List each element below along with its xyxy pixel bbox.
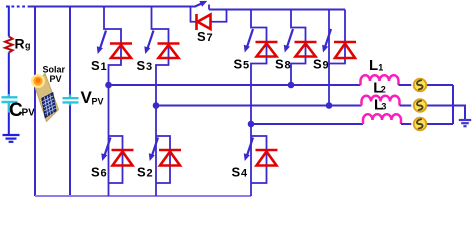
svg-text:PV: PV bbox=[92, 97, 104, 107]
switch S2 bbox=[149, 106, 170, 197]
svg-text:8: 8 bbox=[285, 60, 291, 72]
svg-text:1: 1 bbox=[378, 63, 383, 73]
svg-text:2: 2 bbox=[147, 168, 153, 180]
inductor L2 bbox=[362, 96, 400, 106]
AC source b bbox=[414, 99, 427, 112]
svg-text:S: S bbox=[232, 165, 241, 180]
AC source c bbox=[414, 118, 427, 131]
wire: left branch between Rg and C_PV bbox=[8, 53, 10, 95]
wire: left branch vertical top bbox=[8, 6, 10, 37]
AC source a bbox=[414, 79, 427, 92]
wire: dashed top-left segment bbox=[6, 6, 29, 8]
svg-text:S: S bbox=[91, 165, 100, 180]
svg-text:7: 7 bbox=[207, 32, 213, 44]
svg-text:S: S bbox=[91, 58, 100, 73]
switch S7 (series in top rail) bbox=[191, 1, 227, 22]
wire: L2 to source b bbox=[400, 105, 412, 107]
wire: phase rail B (to L2) bbox=[156, 105, 362, 107]
svg-text:S: S bbox=[137, 165, 146, 180]
wire: V_PV branch vertical bottom bbox=[69, 106, 71, 197]
svg-text:S: S bbox=[197, 29, 206, 44]
svg-text:1: 1 bbox=[101, 61, 107, 73]
resistor R_g bbox=[5, 37, 13, 53]
ground (right) bbox=[459, 120, 471, 126]
diode of S6 bbox=[112, 150, 134, 166]
switch S9 bbox=[322, 10, 345, 106]
wire: top rail left (to S7) bbox=[29, 6, 197, 8]
wire: source b to ground stem bbox=[427, 106, 465, 121]
wire: bottom rail bbox=[35, 195, 251, 197]
diode of S1 bbox=[110, 44, 132, 59]
svg-text:S: S bbox=[234, 57, 243, 72]
wire: right bus vertical bbox=[452, 85, 454, 124]
wire: L1 to source a bbox=[399, 84, 412, 86]
svg-text:4: 4 bbox=[241, 168, 248, 180]
svg-text:R: R bbox=[15, 36, 25, 52]
svg-text:2: 2 bbox=[381, 85, 386, 95]
svg-text:S: S bbox=[137, 58, 146, 73]
switch S3 bbox=[144, 7, 168, 106]
switch S8 bbox=[284, 10, 306, 86]
capacitor V_PV bbox=[63, 95, 79, 106]
wire: phase rail A (to L1) bbox=[109, 84, 361, 86]
switch S4 bbox=[244, 124, 267, 196]
svg-text:3: 3 bbox=[381, 102, 386, 112]
wire: top rail right (after S7) bbox=[209, 9, 345, 11]
capacitor C_PV bbox=[2, 94, 18, 112]
node: leg C midpoint bbox=[248, 121, 255, 128]
svg-text:L: L bbox=[369, 57, 378, 74]
ground (left) bbox=[3, 135, 20, 142]
wire: left DC bus vertical bbox=[34, 6, 36, 197]
svg-text:g: g bbox=[25, 41, 31, 51]
wire: phase rail C (to L3) bbox=[251, 123, 363, 125]
solar PV icon bbox=[31, 74, 59, 122]
svg-text:S: S bbox=[275, 57, 284, 72]
diode of S5 bbox=[256, 42, 278, 57]
wire: source a to right bus bbox=[427, 84, 453, 86]
switch S5 bbox=[244, 10, 267, 125]
wire: V_PV branch vertical top bbox=[69, 6, 71, 95]
svg-text:S: S bbox=[313, 57, 322, 72]
switch S6 bbox=[101, 85, 122, 196]
diode of S8 bbox=[295, 42, 317, 57]
svg-text:Solar: Solar bbox=[43, 65, 66, 75]
diode of S2 bbox=[159, 150, 181, 166]
node: leg B midpoint bbox=[153, 102, 160, 109]
svg-text:5: 5 bbox=[243, 60, 249, 72]
svg-text:PV: PV bbox=[22, 108, 36, 119]
inductor L3 bbox=[363, 114, 401, 124]
svg-text:9: 9 bbox=[323, 60, 329, 72]
svg-text:6: 6 bbox=[101, 168, 107, 180]
diode of S7 bbox=[197, 14, 211, 30]
diode of S9 bbox=[334, 42, 356, 58]
node: leg A midpoint bbox=[105, 82, 112, 89]
node: S9 to rail B bbox=[326, 102, 333, 109]
wire: L3 to source c bbox=[401, 123, 411, 125]
svg-text:PV: PV bbox=[50, 74, 62, 84]
diode of S3 bbox=[158, 44, 180, 59]
node: S8 to rail A bbox=[288, 82, 295, 89]
inductor L1 bbox=[361, 75, 399, 85]
wire: source c to right bus bbox=[427, 123, 453, 125]
switch S1 bbox=[97, 7, 121, 86]
wire: C_PV to ground bbox=[8, 112, 10, 135]
svg-text:3: 3 bbox=[146, 61, 152, 73]
diode of S4 bbox=[256, 150, 278, 166]
